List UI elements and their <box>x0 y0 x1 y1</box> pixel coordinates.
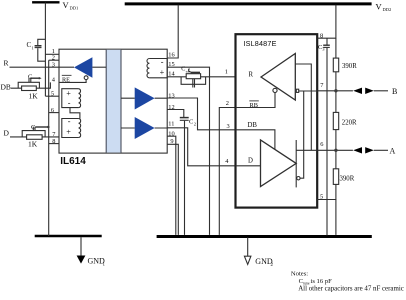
svg-text:D: D <box>4 129 10 138</box>
svg-text:390R: 390R <box>340 175 355 182</box>
svg-text:14: 14 <box>168 71 175 78</box>
svg-text:DD2: DD2 <box>383 7 392 12</box>
svg-text:5: 5 <box>320 193 323 200</box>
svg-text:8: 8 <box>320 32 323 39</box>
svg-text:5: 5 <box>51 90 54 97</box>
svg-text:6: 6 <box>320 141 323 148</box>
svg-text:2: 2 <box>226 100 229 107</box>
svg-text:Notes:: Notes: <box>291 271 308 278</box>
svg-text:+: + <box>66 89 71 98</box>
svg-text:C: C <box>189 119 193 126</box>
svg-text:ISL8487E: ISL8487E <box>243 39 276 48</box>
svg-text:RE: RE <box>62 76 70 83</box>
svg-text:12: 12 <box>168 104 174 111</box>
svg-text:6: 6 <box>51 107 54 114</box>
svg-text:+: + <box>160 68 165 77</box>
svg-text:16: 16 <box>168 52 174 59</box>
svg-text:R: R <box>4 59 9 68</box>
svg-text:-: - <box>68 117 71 126</box>
svg-text:DB: DB <box>1 83 11 92</box>
svg-text:V: V <box>63 0 70 10</box>
svg-text:+: + <box>66 127 71 136</box>
svg-text:is 16 pF: is 16 pF <box>311 278 333 285</box>
svg-text:-: - <box>161 57 164 66</box>
svg-text:2: 2 <box>194 122 196 127</box>
svg-text:3: 3 <box>52 61 55 68</box>
svg-text:All other capacitors are 47 nF: All other capacitors are 47 nF ceramic <box>298 285 404 292</box>
svg-text:B: B <box>392 87 397 96</box>
svg-text:10: 10 <box>168 130 174 137</box>
svg-text:11: 11 <box>168 121 174 128</box>
svg-text:390R: 390R <box>342 63 357 70</box>
svg-text:15: 15 <box>168 61 174 68</box>
svg-text:1K: 1K <box>29 92 39 101</box>
svg-text:DD1: DD1 <box>70 6 79 11</box>
svg-text:1: 1 <box>32 46 34 51</box>
svg-text:V: V <box>376 2 383 12</box>
svg-text:-: - <box>68 98 71 107</box>
svg-text:C: C <box>31 124 35 131</box>
svg-text:RB: RB <box>250 102 258 109</box>
svg-text:C: C <box>28 74 32 81</box>
svg-text:9: 9 <box>170 138 173 145</box>
svg-text:8: 8 <box>52 138 55 145</box>
svg-text:13: 13 <box>168 92 174 99</box>
svg-text:1K: 1K <box>28 140 38 149</box>
svg-text:D: D <box>248 158 253 165</box>
svg-text:R: R <box>249 72 254 79</box>
svg-text:IL614: IL614 <box>60 156 86 167</box>
svg-text:1: 1 <box>225 68 228 75</box>
svg-text:A: A <box>390 147 396 156</box>
svg-text:3: 3 <box>227 123 230 130</box>
svg-text:DB: DB <box>248 122 258 129</box>
svg-text:220R: 220R <box>342 119 357 126</box>
